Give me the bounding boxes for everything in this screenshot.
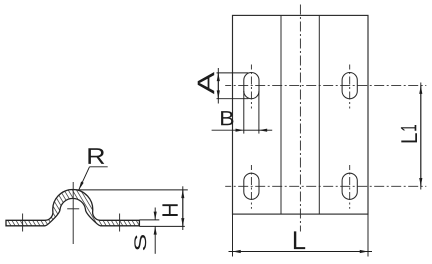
- label H (rotated): [162, 204, 177, 216]
- clamp strip section (hatched band): [6, 190, 139, 226]
- slot top-left: [244, 73, 259, 99]
- dimension L extension lines: [233, 214, 369, 256]
- dimension B line with outside arrows: [212, 129, 273, 131]
- dimension S line: [154, 208, 156, 254]
- plate vertical centerline: [299, 5, 301, 232]
- slot bottom-right: [342, 173, 357, 199]
- dimension S extension line top: [139, 219, 159, 221]
- fold line left: [280, 15, 282, 214]
- label L: [294, 231, 305, 249]
- slot bottom-right centerline: [349, 165, 351, 209]
- dimension L1 line: [420, 83, 422, 190]
- left hole centerline tick: [22, 214, 24, 232]
- dimension L line: [229, 251, 373, 253]
- dimension H extension lines: [76, 190, 188, 227]
- slot top-left centerlines: [250, 65, 252, 109]
- right hole centerline tick: [119, 214, 121, 232]
- slot bottom-left: [244, 173, 259, 199]
- top row centerline: [225, 85, 426, 87]
- label R: [88, 148, 104, 164]
- leader R arrow: [79, 167, 108, 191]
- fold line right: [318, 15, 320, 214]
- dimension B extension lines: [244, 91, 259, 134]
- slot top-right centerline: [349, 65, 351, 109]
- label S (rotated): [134, 235, 146, 250]
- dome horizontal center tick: [67, 208, 79, 210]
- dimension H line: [182, 186, 184, 230]
- label L1 (rotated): [401, 133, 417, 142]
- bottom row centerline: [225, 185, 426, 187]
- dimension A extension lines: [217, 73, 249, 99]
- label B: [221, 111, 233, 125]
- label A (rotated): [198, 72, 214, 94]
- slot bottom-left centerline: [250, 165, 252, 209]
- plate outline: [233, 15, 369, 214]
- dimension A line: [217, 68, 219, 104]
- slot top-right: [342, 73, 357, 99]
- dome vertical centerline: [72, 182, 74, 244]
